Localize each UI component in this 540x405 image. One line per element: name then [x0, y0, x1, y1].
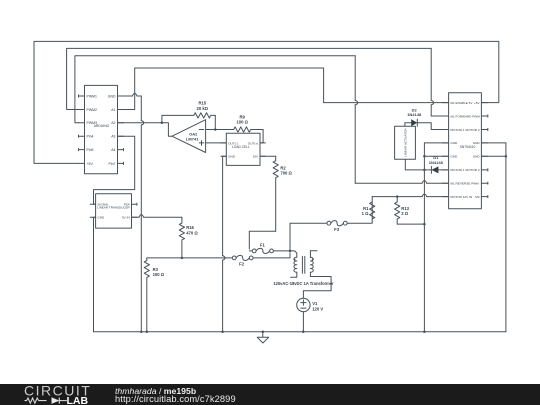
- wire driver GND left vertical to rail: [424, 143, 448, 332]
- svg-text:LOAD CELL: LOAD CELL: [232, 145, 250, 149]
- svg-text:A3: A3: [111, 135, 115, 139]
- label R13: [401, 206, 409, 216]
- svg-text:2 Ω: 2 Ω: [401, 211, 408, 216]
- svg-text:MOTOR 2: MOTOR 2: [466, 128, 480, 132]
- svg-text:LAB: LAB: [67, 395, 89, 405]
- label transformer: [273, 281, 334, 286]
- label F3: [334, 227, 340, 232]
- svg-text:10V: 10V: [253, 155, 259, 159]
- svg-text:SN754410: SN754410: [460, 145, 476, 149]
- svg-text:Pin7: Pin7: [108, 162, 115, 166]
- label F1: [260, 242, 266, 247]
- resistor R13 2 Ohm: [395, 197, 400, 225]
- switch F3: [327, 220, 372, 225]
- node F1/F2/F3/transformer junction: [289, 250, 292, 253]
- wire load cell 10V to R2: [260, 155, 276, 157]
- svg-text:120vAC-18vDC 1A Transformer: 120vAC-18vDC 1A Transformer: [273, 281, 334, 286]
- node rail R3: [146, 331, 149, 334]
- wire op-amp output to node: [162, 123, 172, 136]
- transformer T1 core: [302, 256, 304, 273]
- switch F2: [232, 253, 290, 261]
- svg-text:120 V: 120 V: [312, 307, 323, 312]
- node driver GND2 left: [423, 155, 426, 158]
- svg-text:700 Ω: 700 Ω: [280, 171, 292, 176]
- voltage source V1 120 V: [297, 298, 310, 332]
- resistor R2 700 Ohm: [273, 156, 278, 231]
- svg-text:LINEAR ACTUATOR: LINEAR ACTUATOR: [404, 128, 408, 157]
- svg-text:GND: GND: [473, 155, 481, 159]
- svg-text:PWM2: PWM2: [87, 108, 98, 112]
- wire A1 to M1 ENABLE 5V: [118, 68, 449, 110]
- label D1: [429, 155, 444, 165]
- svg-text:LM741: LM741: [186, 137, 199, 142]
- node A2-output junction: [161, 122, 164, 125]
- svg-text:M2: M2: [475, 195, 480, 199]
- node R13 bottom junction: [423, 223, 426, 226]
- label R2: [280, 165, 292, 175]
- svg-text:5V IN: 5V IN: [122, 216, 130, 220]
- svg-text:PWM1: PWM1: [87, 94, 98, 98]
- label F2: [239, 262, 245, 267]
- resistor R15 20 kOhm (feedback): [162, 113, 215, 130]
- node R16 bottom: [181, 257, 184, 260]
- label V1: [312, 301, 323, 312]
- svg-text:GND: GND: [228, 155, 236, 159]
- svg-text:GND: GND: [450, 155, 458, 159]
- ground: [257, 331, 269, 343]
- wire R2 to switch F1: [249, 231, 275, 249]
- CircuitLab logo: [0, 384, 110, 405]
- svg-text:F2: F2: [239, 262, 245, 267]
- svg-text:100 Ω: 100 Ω: [236, 120, 248, 125]
- node R13 top: [396, 195, 399, 198]
- wire PWM2 to M1 FORWARD PWM: [67, 48, 449, 116]
- label D2: [407, 107, 422, 117]
- svg-text:F1: F1: [260, 242, 266, 247]
- wire R3/R16 row to switch F2: [147, 257, 233, 259]
- label R1: [362, 206, 370, 216]
- wire A3 to transducer SIGNAL: [94, 136, 135, 204]
- svg-text:MOTOR 1: MOTOR 1: [450, 128, 464, 132]
- svg-text:A2: A2: [111, 121, 115, 125]
- resistor R16 470 Ohm: [179, 217, 184, 258]
- svg-text:M1 ENABLE 5V: M1 ENABLE 5V: [450, 101, 473, 105]
- diode D1 1N4148: [424, 166, 448, 173]
- svg-text:V1: V1: [312, 301, 318, 306]
- svg-text:1N4148: 1N4148: [429, 160, 444, 165]
- resistor R1 1 Ohm: [370, 197, 394, 221]
- transformer T1 primary coil: [290, 251, 297, 277]
- svg-text:1N4148: 1N4148: [407, 112, 422, 117]
- linear transducer box: [90, 194, 137, 228]
- svg-text:MOTOR 1: MOTOR 1: [450, 168, 464, 172]
- wire junction up to F3: [290, 223, 327, 251]
- node driver GND right: [505, 155, 508, 158]
- wire transducer GND to ground rail: [94, 217, 96, 332]
- op-amp OA2 LM741: [172, 120, 206, 153]
- load cell box: [221, 133, 266, 165]
- switch F1: [249, 248, 290, 253]
- op-amp U1 ARDUINO box: [79, 85, 124, 173]
- svg-text:GND: GND: [108, 94, 116, 98]
- resistor R9 100 Ohm: [215, 127, 263, 143]
- wire op-amp non-inverting input to load cell OUT(-): [206, 142, 227, 144]
- wire A2 to op-amp output node: [118, 122, 162, 124]
- wire R1/R13 to MOTOR 12V IN: [394, 194, 449, 197]
- node D1 cathode junction: [423, 169, 426, 172]
- wire Arduino GND to ground rail: [118, 94, 144, 332]
- label R3: [153, 267, 165, 277]
- svg-text:Pin4: Pin4: [87, 135, 94, 139]
- svg-text:GND: GND: [97, 216, 105, 220]
- node rail load cell GND: [221, 331, 224, 334]
- svg-text:LINEAR TRANSDUCER: LINEAR TRANSDUCER: [97, 206, 130, 210]
- svg-text:1 Ω: 1 Ω: [362, 211, 369, 216]
- svg-text:GND: GND: [450, 141, 458, 145]
- node rail V1: [302, 331, 305, 334]
- svg-text:+5V: +5V: [87, 162, 94, 166]
- linear actuator box: [395, 126, 416, 159]
- footer bar: [0, 384, 540, 405]
- wire +5V net (Arduino +5V to motor driver +5V): [34, 41, 499, 163]
- svg-text:+5V: +5V: [474, 101, 481, 105]
- wire inverting input row: [206, 129, 216, 131]
- wire PWM3 to M1 REVERSE PWM: [75, 56, 449, 184]
- wire R13 bottom to GND vertical: [397, 223, 424, 225]
- svg-text:Pin5: Pin5: [87, 148, 94, 152]
- svg-text:M1 FORWARD PWM: M1 FORWARD PWM: [450, 114, 480, 118]
- svg-text:MOTOR 12V IN: MOTOR 12V IN: [450, 195, 472, 199]
- transformer T1 secondary coil: [303, 251, 331, 299]
- node rail driver GND: [423, 331, 426, 334]
- motor driver U2 SN754410 box: [442, 93, 488, 209]
- diode D2 1N4148: [405, 119, 449, 129]
- label R15: [197, 101, 209, 111]
- svg-text:470 Ω: 470 Ω: [186, 230, 198, 235]
- wire transducer 5V IN to R16: [132, 215, 182, 218]
- svg-text:M1 REVERSE PWM: M1 REVERSE PWM: [450, 182, 479, 186]
- svg-text:MOTOR 2: MOTOR 2: [466, 168, 480, 172]
- svg-text:20 kΩ: 20 kΩ: [197, 106, 209, 111]
- node rail GND wire: [140, 331, 143, 334]
- resistor R3 100 Ohm: [144, 258, 149, 332]
- node R15/R9/op-amp inverting input: [214, 128, 217, 131]
- wire load cell GND to ground rail: [223, 156, 227, 331]
- label R9: [236, 115, 248, 125]
- ground rail: [94, 331, 506, 333]
- label R16: [186, 225, 198, 235]
- transformer phase dots: [294, 259, 314, 261]
- svg-text:A1: A1: [111, 108, 115, 112]
- svg-text:A4: A4: [111, 148, 115, 152]
- svg-text:F3: F3: [334, 227, 340, 232]
- svg-text:ARDUINO: ARDUINO: [94, 124, 110, 128]
- svg-text:100 Ω: 100 Ω: [153, 272, 165, 277]
- wire driver GND right vertical to rail: [481, 143, 506, 332]
- wire actuator bottom to GND vertical: [405, 159, 424, 170]
